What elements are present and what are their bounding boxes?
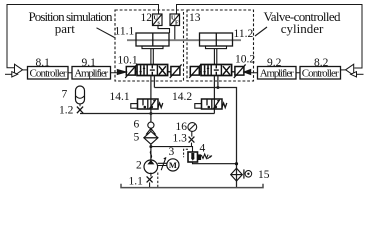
svg-text:15: 15	[258, 169, 270, 181]
svg-text:14.1: 14.1	[110, 91, 130, 103]
svg-text:10.1: 10.1	[118, 55, 138, 67]
svg-text:Amplifier: Amplifier	[260, 67, 294, 79]
svg-text:Amplifier: Amplifier	[74, 67, 108, 79]
svg-text:F: F	[175, 21, 179, 27]
svg-text:cylinder: cylinder	[281, 21, 324, 36]
svg-text:4: 4	[200, 143, 206, 155]
svg-text:part: part	[55, 21, 76, 36]
svg-text:1.1: 1.1	[129, 176, 144, 188]
svg-text:M: M	[169, 160, 177, 170]
svg-text:13: 13	[189, 12, 201, 24]
svg-text:2: 2	[136, 160, 142, 172]
svg-text:11.2: 11.2	[234, 28, 254, 40]
svg-text:11.1: 11.1	[115, 26, 135, 38]
svg-text:Controller: Controller	[30, 67, 67, 79]
svg-text:10.2: 10.2	[235, 54, 255, 66]
svg-text:16: 16	[176, 121, 188, 133]
svg-text:12: 12	[141, 12, 153, 24]
svg-text:1.2: 1.2	[59, 105, 74, 117]
svg-text:5: 5	[134, 132, 140, 144]
svg-text:1.3: 1.3	[173, 133, 188, 145]
svg-text:7: 7	[62, 89, 68, 101]
svg-text:6: 6	[134, 119, 140, 131]
svg-text:3: 3	[169, 146, 175, 158]
svg-text:14.2: 14.2	[172, 91, 192, 103]
svg-text:Controller: Controller	[302, 67, 339, 79]
